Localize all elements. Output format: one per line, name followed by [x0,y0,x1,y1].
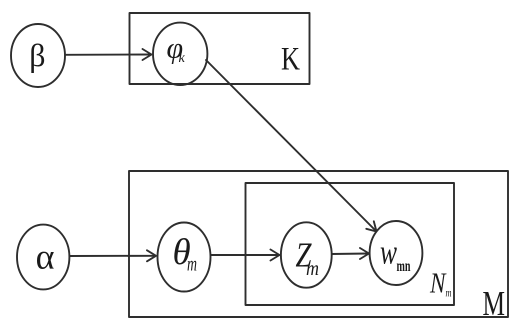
svg-text:k: k [179,51,186,66]
svg-text:K: K [281,42,300,78]
plate K [130,13,310,84]
svg-text:β: β [29,37,45,73]
node phi_k ellipse [153,23,207,85]
wire theta to Z [211,254,280,256]
svg-text:N: N [429,269,446,300]
node alpha ellipse [17,225,69,290]
svg-text:α: α [36,237,55,277]
svg-text:m: m [187,254,197,276]
node Z_m ellipse [281,222,332,287]
svg-text:m: m [446,286,452,300]
node beta ellipse [11,24,65,87]
wire phi to w diagonal [206,60,376,231]
svg-text:w: w [380,233,397,272]
svg-text:mn: mn [397,258,411,275]
node theta_m ellipse [158,223,211,292]
plate N_m [246,183,455,305]
svg-text:M: M [483,284,506,323]
wire Z to w [332,253,369,256]
svg-text:m: m [306,258,319,280]
wire beta to phi [65,54,151,56]
node w_mn ellipse [370,221,423,285]
wire alpha to theta [70,255,156,257]
plate M [129,171,508,317]
